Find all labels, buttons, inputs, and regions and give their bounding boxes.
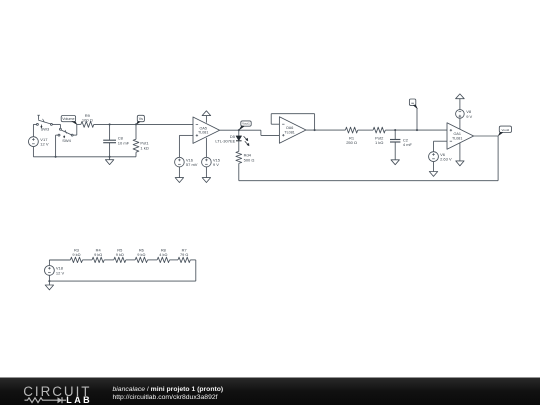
resistor R3 9 kOhm [70,257,82,262]
svg-text:4 mF: 4 mF [403,142,413,147]
svg-text:1 kΩ: 1 kΩ [375,140,383,145]
node Vout1 [238,129,240,131]
svg-text:9 kΩ: 9 kΩ [94,252,102,257]
ground rail of input stage [33,156,136,158]
capacitor C2 4mF [394,130,396,139]
wire: R7 to bottom rail [190,259,196,261]
wire: R9 to Vs node [110,123,136,125]
ground below V16 [178,167,180,178]
VCC arrow above V8 [459,99,461,110]
resistor R5 9 kOhm [114,257,126,262]
svg-text:TL081: TL081 [452,136,462,140]
resistor Rd4 500 Ohm [236,151,242,163]
svg-text:9 kΩ: 9 kΩ [116,252,124,257]
wire: OA5 power to V15 [205,138,207,158]
svg-text:100 Ω: 100 Ω [82,118,93,123]
op-amp OA5 TL081 [193,117,220,143]
svg-text:TL081: TL081 [198,131,208,135]
resistor Pot1 1k [135,124,137,139]
svg-text:12 V: 12 V [40,142,49,147]
node: C8 junction [109,123,111,125]
resistor R7 79 Ohm [178,257,190,262]
wire to R4 [83,259,93,261]
feedback wire OA6 [271,123,279,125]
svg-text:9 V: 9 V [213,162,219,167]
node Vout2 [499,126,511,132]
ground below V15 [205,167,207,178]
wire: Vs to op-amp OA5 [136,123,193,125]
ground below C2 [391,160,399,165]
logo diode glyph [58,397,63,403]
ground below OA1 [459,143,461,161]
svg-text:9 V: 9 V [466,114,472,119]
wire: V17 top to SW3 [33,123,36,125]
svg-text:250 Ω: 250 Ω [346,140,357,145]
label Volume [61,116,75,122]
ground below V18 [45,285,53,290]
LED D5 LTL-307EE [238,130,240,136]
switch SW4 [59,128,61,130]
wire to R5 [104,259,114,261]
wire: OA1 power top to V8 [459,118,461,129]
svg-text:57 mV: 57 mV [186,162,198,167]
switch SW3 [36,123,38,125]
resistor R4 9 kOhm [92,257,104,262]
resistor R1 250 Ohm [345,127,357,133]
node: C2 junction [394,129,396,131]
voltage source V17 12V [29,137,39,147]
svg-text:Vs: Vs [139,117,143,121]
svg-text:12 V: 12 V [56,270,65,275]
wire: OA5 output to LED node [220,129,239,131]
wire to R7 [170,259,179,261]
voltage source V6 2.63V [429,152,439,162]
logo wire glyph [25,398,58,403]
wire: OA1 output to Vout2 [473,135,498,137]
svg-text:1 kΩ: 1 kΩ [140,145,148,150]
svg-text:SW3: SW3 [41,127,50,132]
ground below V6 [433,162,435,172]
VCC arrow above OA5 [205,116,207,123]
resistor R6 9 kOhm [135,257,147,262]
svg-text:biancalace / mini projeto 1 (p: biancalace / mini projeto 1 (pronto) [113,386,224,393]
svg-text:79 Ω: 79 Ω [180,252,188,257]
svg-text:http://circuitlab.com/ckr8dux3: http://circuitlab.com/ckr8dux3a892f [113,394,218,401]
wire: to OA1 plus input [417,129,447,131]
op-amp OA1 TL081 [447,123,474,149]
svg-text:Vout2: Vout2 [502,128,510,132]
svg-text:Volume: Volume [62,117,74,121]
svg-text:TL081: TL081 [284,130,294,134]
wire: SW3 to SW4 [52,123,60,125]
voltage source V16 57mV [175,157,185,167]
wire: SW4 left contact to ground rail [56,134,59,136]
ground symbol below C8 [109,157,111,160]
resistor R8 4 kOhm [157,257,169,262]
wire: OA5 plus input to V16 [179,134,193,136]
wire: Vout1 node to OA6 input [239,129,261,131]
svg-text:500 Ω: 500 Ω [244,157,255,162]
resistor R9 100 Ohm [77,123,81,125]
wire: bottom return to Vout2 [239,180,498,182]
svg-text:LAB: LAB [66,395,92,405]
wire to R3 [49,259,70,261]
svg-text:9 kΩ: 9 kΩ [137,252,145,257]
svg-text:LTL-307EE: LTL-307EE [215,139,235,144]
svg-text:2.63 V: 2.63 V [440,157,452,162]
wire: OA6 output to R1 [306,129,345,131]
wire to R6 [126,259,135,261]
wire: V18 to R3 [49,259,70,261]
voltage source V18 12V [45,266,55,276]
node Vs [135,123,137,125]
svg-text:SW4: SW4 [62,138,71,143]
footer bar [0,378,540,405]
voltage source V15 9V [202,157,212,167]
probe flag [416,129,418,131]
wire to R8 [148,259,158,261]
wire: SW4 right contact up to node [73,134,77,136]
svg-text:4 kΩ: 4 kΩ [159,252,167,257]
wire: OA1 minus input to V6 [434,140,448,142]
capacitor C8 10mF [109,124,111,140]
svg-text:9 kΩ: 9 kΩ [72,252,80,257]
svg-text:10 mF: 10 mF [118,140,130,145]
resistor Pot2 1k [373,127,385,133]
op-amp OA6 TL081 follower [279,117,306,143]
voltage source V8 9V [456,110,465,119]
svg-text:Vout1: Vout1 [242,122,250,126]
